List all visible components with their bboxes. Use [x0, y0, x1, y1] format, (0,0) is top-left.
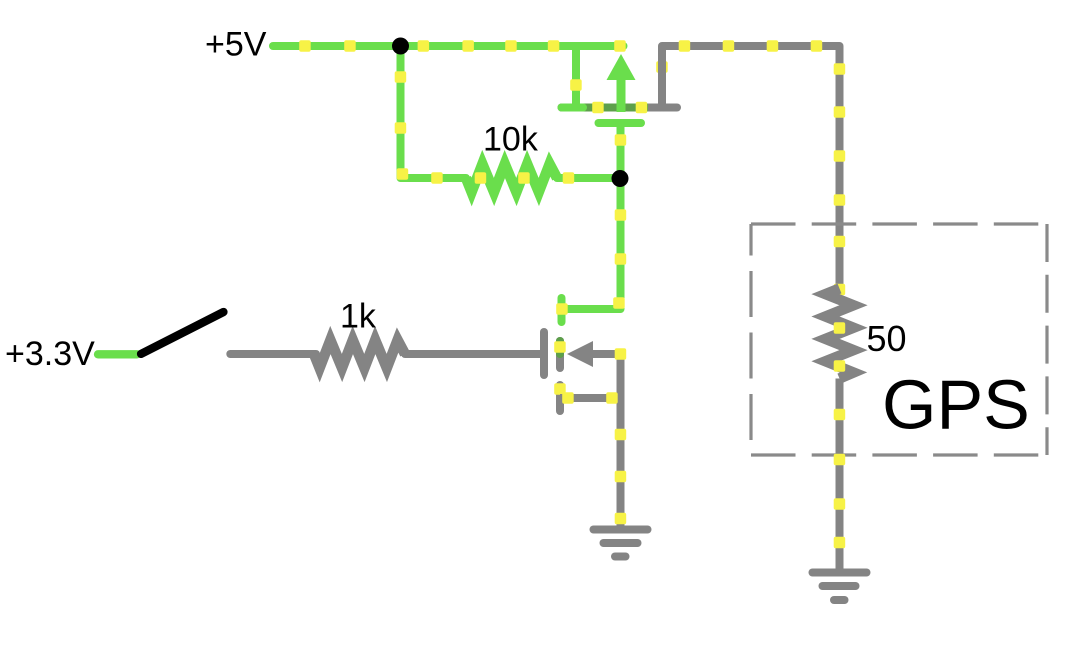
resistor R3 50 — [826, 289, 854, 379]
ground right — [813, 573, 867, 601]
wire GPS resistor to ground — [836, 379, 844, 573]
wire gate node down to N-FET drain — [562, 178, 621, 309]
wire N-FET source to ground — [617, 354, 625, 529]
resistor R1 10k — [466, 164, 557, 192]
wire source contact elbow — [560, 394, 621, 402]
svg-text:+3.3V: +3.3V — [5, 335, 95, 373]
channel bar — [562, 104, 678, 112]
switch SW1 lever (open) — [141, 312, 224, 354]
ground middle — [594, 530, 648, 557]
wire P-FET drain to GPS resistor — [662, 46, 840, 289]
wire +5V rail — [273, 42, 624, 50]
body arrow — [567, 341, 593, 367]
svg-text:GPS: GPS — [882, 366, 1030, 444]
svg-text:50: 50 — [867, 318, 907, 359]
source contact — [556, 385, 564, 411]
gate bar — [540, 332, 548, 375]
body contact — [556, 341, 564, 368]
GPS dashed box — [751, 224, 1047, 455]
wire switch to 1k — [230, 350, 316, 358]
node gate junction — [612, 170, 629, 187]
wire 10k to gate node — [557, 174, 621, 182]
resistor R2 1k — [314, 340, 405, 368]
gate plate — [599, 119, 642, 127]
wire +3.3V stub — [98, 350, 137, 358]
wire 1k to N-FET gate — [405, 350, 540, 358]
drain leg — [658, 46, 666, 108]
drain contact — [558, 298, 566, 322]
transistor Q2 N-MOSFET — [544, 298, 625, 411]
svg-text:10k: 10k — [483, 121, 539, 159]
svg-text:+5V: +5V — [205, 26, 267, 64]
wire node to P-FET gate — [617, 123, 625, 178]
svg-text:1k: 1k — [340, 298, 377, 336]
node junction on +5V rail — [392, 38, 409, 55]
transistor Q1 P-MOSFET — [562, 46, 678, 123]
wire +5V junction to 10k — [401, 46, 467, 178]
body arrow — [617, 80, 626, 112]
source leg — [572, 46, 580, 108]
